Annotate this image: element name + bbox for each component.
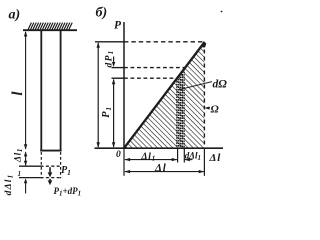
hatched triangle bbox=[125, 43, 205, 148]
dashed bar extension left bbox=[40, 152, 42, 178]
bar left edge bbox=[40, 30, 42, 151]
ceiling line bbox=[23, 29, 77, 31]
svg-text:dP1: dP1 bbox=[105, 50, 116, 68]
svg-text:б): б) bbox=[96, 6, 108, 21]
bar right edge bbox=[60, 30, 62, 151]
below-axis vertical at origin bbox=[123, 149, 125, 176]
svg-text:dΩ: dΩ bbox=[213, 79, 228, 91]
d-omega leader bbox=[179, 82, 213, 90]
elongation line 1 bbox=[19, 165, 41, 167]
force P1+dP1 arrow bbox=[49, 179, 51, 182]
omega leader arrow bbox=[206, 107, 211, 109]
top dashed line bbox=[95, 41, 124, 43]
dim P1 line bbox=[113, 80, 115, 148]
svg-text:0: 0 bbox=[116, 150, 121, 160]
svg-text:Δl1: Δl1 bbox=[141, 152, 157, 163]
dim d-delta-l1 arrow bbox=[185, 159, 193, 161]
dim P line bbox=[97, 43, 99, 147]
dim d-delta-l1 outside arrow bbox=[25, 180, 27, 194]
dim delta-l1 bbox=[25, 152, 27, 165]
below-axis vertical right edge bbox=[203, 148, 205, 176]
apex dashed vertical bbox=[203, 43, 205, 149]
svg-text:P: P bbox=[114, 20, 122, 32]
x axis bbox=[95, 147, 224, 149]
svg-text:P1+dP1: P1+dP1 bbox=[54, 186, 82, 198]
apex junction blob bbox=[201, 42, 206, 48]
dashed bar extension right bbox=[60, 152, 62, 178]
below-axis vertical strip left bbox=[177, 149, 179, 163]
svg-text:Δl: Δl bbox=[154, 162, 167, 174]
middle dashed line 2 bbox=[112, 77, 125, 79]
below-axis vertical strip right bbox=[183, 149, 185, 163]
vertical axis P bbox=[123, 22, 125, 149]
hypotenuse bbox=[124, 42, 205, 148]
strip d-omega dotted columns bbox=[177, 69, 184, 148]
svg-text:1: 1 bbox=[18, 170, 22, 178]
svg-text:Δl1: Δl1 bbox=[14, 148, 25, 163]
speck bbox=[221, 11, 223, 13]
svg-text:a): a) bbox=[9, 8, 21, 23]
ceiling hatch bbox=[28, 23, 72, 30]
middle dashed line 1 bbox=[112, 67, 125, 69]
bar bottom bbox=[40, 150, 61, 152]
dimension l line bbox=[25, 32, 27, 149]
dim dP1 upper arrow bbox=[113, 57, 115, 65]
svg-text:Δl: Δl bbox=[209, 152, 222, 164]
elongation line 2 bbox=[19, 177, 41, 179]
svg-text:Ω: Ω bbox=[211, 104, 220, 116]
svg-text:dΔl1: dΔl1 bbox=[4, 174, 15, 196]
force P1 arrow bbox=[49, 167, 51, 174]
dim delta-l row bbox=[125, 171, 204, 173]
dim delta-l1 row bbox=[125, 159, 177, 161]
